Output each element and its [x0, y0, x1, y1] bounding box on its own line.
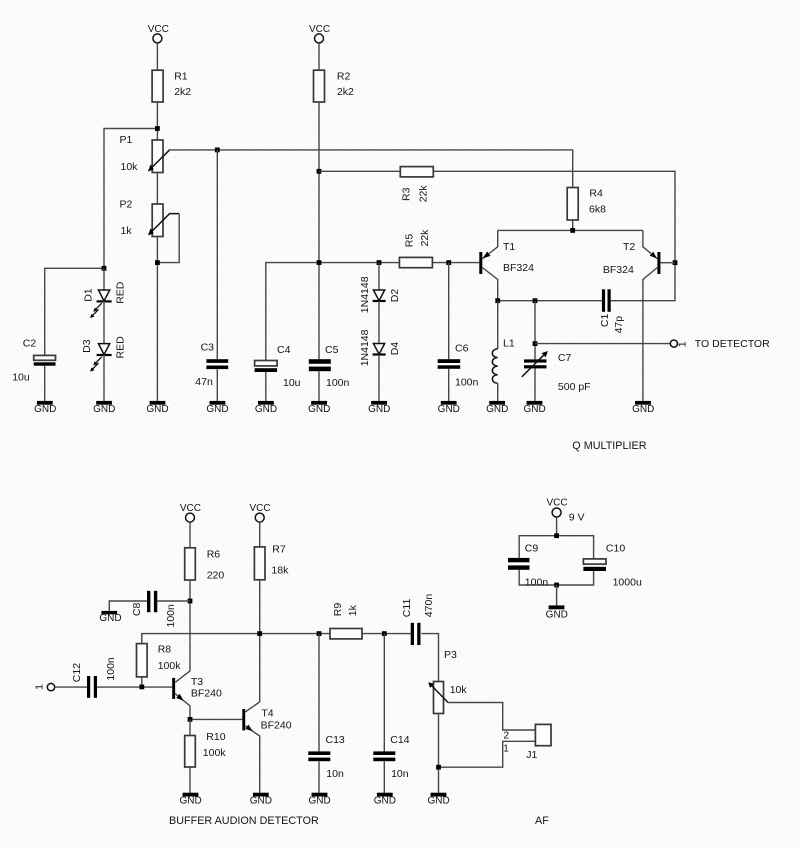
wire J1 pin1 return: [439, 741, 536, 767]
wire to ground: [556, 585, 558, 605]
junction R8/base: [139, 685, 144, 690]
wire P1 wiper rail (line A): [170, 150, 573, 188]
svg-text:D2: D2: [389, 289, 401, 303]
svg-text:100n: 100n: [525, 576, 549, 588]
svg-text:10u: 10u: [12, 371, 30, 383]
wire C13 column: [318, 634, 320, 752]
junction P3/J1 return: [436, 765, 441, 770]
junction T2 base: [673, 260, 678, 265]
svg-text:TO DETECTOR: TO DETECTOR: [695, 338, 770, 350]
svg-text:VCC: VCC: [546, 498, 567, 509]
ground (C6): [438, 401, 460, 415]
svg-text:47n: 47n: [195, 376, 213, 388]
junction P2 node: [155, 260, 160, 265]
junction filter ground node: [554, 583, 559, 588]
wire VCC to R2: [318, 43, 320, 71]
ground (filter): [546, 605, 568, 620]
ground (D3): [93, 401, 115, 415]
input terminal 1: [34, 683, 55, 690]
capacitor C5: [309, 344, 350, 389]
junction VCC rail: [554, 533, 559, 538]
ground (L1): [486, 401, 508, 415]
svg-text:C5: C5: [325, 344, 339, 356]
svg-text:C3: C3: [201, 342, 215, 354]
svg-text:GND: GND: [438, 404, 460, 415]
svg-text:Q MULTIPLIER: Q MULTIPLIER: [572, 440, 646, 452]
svg-text:22k: 22k: [417, 185, 429, 203]
svg-text:GND: GND: [99, 613, 121, 624]
resistor R10: [185, 731, 227, 767]
svg-text:R4: R4: [589, 187, 603, 199]
junction C5 tap: [317, 260, 322, 265]
junction C8 node: [188, 599, 193, 604]
diode D4: [359, 329, 401, 366]
junction C14 tap: [382, 631, 387, 636]
svg-text:R3: R3: [401, 187, 413, 201]
transistor T2: [603, 230, 675, 401]
ground (C5): [308, 401, 330, 415]
svg-text:100k: 100k: [203, 747, 227, 759]
wire audio line right: [422, 634, 439, 682]
wire C3 to ground: [216, 369, 218, 401]
svg-text:GND: GND: [632, 404, 654, 415]
svg-text:R8: R8: [158, 644, 172, 656]
svg-text:R5: R5: [403, 234, 415, 248]
svg-text:GND: GND: [308, 796, 330, 807]
junction C6/T1 base: [446, 260, 451, 265]
wire C1 line (collectors): [498, 300, 602, 302]
svg-text:10k: 10k: [450, 684, 468, 696]
svg-text:C9: C9: [525, 543, 539, 555]
resistor R8: [137, 644, 182, 677]
diode D2: [359, 276, 401, 313]
ground (C4): [255, 401, 277, 415]
svg-text:GND: GND: [179, 796, 201, 807]
svg-text:C12: C12: [71, 663, 83, 682]
svg-text:D4: D4: [389, 342, 401, 356]
resistor R2: [314, 70, 354, 102]
capacitor C8: [109, 591, 190, 628]
LED D3: [81, 336, 126, 372]
svg-text:2k2: 2k2: [337, 86, 354, 98]
svg-text:RED: RED: [114, 336, 126, 359]
power symbol VCC (R2): [309, 24, 330, 43]
wire D1 to D3: [103, 301, 105, 344]
wire VCC to rail: [556, 517, 558, 536]
potentiometer P2: [120, 199, 180, 237]
junction R2/R3 (line B start): [317, 169, 322, 174]
svg-text:BF240: BF240: [261, 720, 292, 732]
wire emitter rail T1-T2: [498, 229, 643, 231]
wire D2 to D4: [378, 301, 380, 344]
resistor R9: [330, 603, 362, 639]
wire C5 to ground: [318, 371, 320, 401]
ground (D4): [368, 401, 390, 415]
svg-text:47p: 47p: [613, 316, 625, 334]
svg-text:C2: C2: [23, 337, 37, 349]
connector J1: [503, 724, 551, 761]
wire R10 to ground: [189, 767, 191, 793]
svg-text:2: 2: [504, 731, 510, 742]
capacitor C4: [255, 344, 301, 389]
svg-text:R7: R7: [272, 543, 286, 555]
resistor R3: [400, 167, 433, 203]
svg-text:C11: C11: [401, 599, 413, 618]
svg-text:GND: GND: [146, 404, 168, 415]
wire P2 wiper to node: [157, 214, 179, 263]
transistor T3: [172, 676, 222, 720]
wire audio line: [142, 634, 411, 644]
capacitor C9: [508, 543, 548, 589]
ground (C3): [206, 401, 228, 415]
svg-text:100n: 100n: [326, 377, 350, 389]
transistor T1: [479, 230, 534, 300]
svg-text:BF240: BF240: [191, 687, 222, 699]
svg-text:GND: GND: [255, 404, 277, 415]
ground (T2 collector): [632, 401, 654, 415]
resistor R4: [567, 187, 606, 220]
svg-text:C10: C10: [606, 543, 625, 555]
ground (R10): [179, 793, 201, 807]
ground (C7): [523, 401, 545, 415]
wire T3 emitter to T4 base: [190, 718, 242, 720]
wire R8 to base line: [141, 677, 143, 687]
ground (T4): [250, 793, 272, 807]
junction D1/C2: [102, 266, 107, 271]
svg-text:L1: L1: [503, 338, 515, 350]
junction R7 line: [257, 631, 262, 636]
svg-text:T4: T4: [261, 707, 273, 719]
svg-text:C13: C13: [326, 734, 345, 746]
capacitor C13: [308, 734, 345, 780]
svg-text:C7: C7: [558, 352, 572, 364]
svg-text:R10: R10: [206, 731, 225, 743]
wire C2 link: [45, 268, 104, 355]
svg-text:P3: P3: [444, 649, 457, 661]
resistor R5: [399, 229, 432, 268]
wire C3 column: [216, 150, 218, 359]
wire line B to T2 base: [319, 171, 675, 300]
svg-text:220: 220: [207, 569, 225, 581]
junction node R1/P1: [155, 126, 160, 131]
svg-text:1N4148: 1N4148: [359, 329, 371, 366]
ground (P2 column): [146, 401, 168, 415]
capacitor C2: [12, 337, 55, 383]
LED D1: [83, 281, 127, 318]
svg-text:10k: 10k: [121, 161, 139, 173]
junction C13 tap: [317, 631, 322, 636]
wire D3 to ground: [103, 355, 105, 401]
wire D4 to ground: [378, 355, 380, 401]
ground (P3): [427, 793, 449, 807]
svg-text:R6: R6: [207, 548, 221, 560]
power symbol VCC (R1): [148, 24, 169, 43]
svg-text:BF324: BF324: [603, 264, 634, 276]
ground (C2): [34, 401, 56, 415]
resistor R6: [185, 548, 225, 582]
wire to LED D1: [103, 268, 105, 290]
wire R10 leads: [189, 719, 191, 735]
junction C3 tap: [215, 148, 220, 153]
capacitor C12: [71, 657, 117, 698]
svg-text:100n: 100n: [105, 657, 117, 681]
svg-text:1: 1: [34, 684, 46, 690]
svg-text:C8: C8: [131, 603, 143, 617]
svg-text:RED: RED: [114, 281, 126, 304]
svg-text:R2: R2: [337, 71, 351, 83]
wire P2 to ground: [156, 237, 158, 401]
svg-text:R9: R9: [332, 603, 344, 617]
svg-text:R1: R1: [174, 71, 188, 83]
wire C14 column: [383, 634, 385, 752]
svg-text:P1: P1: [120, 134, 133, 146]
svg-text:1k: 1k: [347, 604, 359, 616]
ground (C8): [99, 611, 121, 624]
wire filter rails: [519, 536, 593, 559]
wire VCC to R7: [259, 522, 261, 547]
potentiometer P3: [428, 649, 467, 714]
svg-text:T2: T2: [623, 241, 635, 253]
wire VCC to R6: [189, 522, 191, 548]
wire C14 to ground: [383, 761, 385, 793]
svg-text:1N4148: 1N4148: [359, 276, 371, 313]
power symbol VCC (R6): [180, 503, 201, 522]
svg-text:GND: GND: [523, 404, 545, 415]
svg-text:500 pF: 500 pF: [558, 381, 591, 393]
svg-text:1: 1: [677, 341, 689, 347]
wire input to C12: [55, 686, 87, 688]
potentiometer P1: [120, 134, 170, 173]
svg-text:D1: D1: [83, 288, 95, 302]
wire to detector terminal: [535, 343, 670, 345]
wire R6 to T3 collector: [175, 580, 190, 682]
variable capacitor C7: [522, 351, 591, 393]
capacitor C6: [438, 343, 479, 389]
svg-text:1000u: 1000u: [613, 576, 642, 588]
svg-text:9 V: 9 V: [569, 511, 585, 523]
svg-text:GND: GND: [250, 796, 272, 807]
wire filter bottom rail: [519, 570, 593, 585]
junction T1 collector: [495, 298, 500, 303]
svg-text:C6: C6: [455, 343, 469, 355]
wire C7 to ground: [534, 368, 536, 401]
wire base line R5 (T1): [266, 263, 480, 361]
output terminal TO DETECTOR: [670, 338, 770, 350]
capacitor C1: [599, 289, 625, 333]
wire P3 to ground: [438, 714, 440, 793]
wire R2 column down to C5: [318, 102, 320, 359]
svg-text:D3: D3: [81, 339, 93, 353]
svg-text:6k8: 6k8: [589, 203, 606, 215]
svg-text:GND: GND: [368, 404, 390, 415]
capacitor C14: [373, 734, 409, 780]
svg-text:J1: J1: [526, 749, 537, 761]
power symbol VCC 9V: [546, 498, 584, 524]
svg-text:10u: 10u: [283, 377, 301, 389]
svg-text:GND: GND: [206, 404, 228, 415]
wire C2 to ground: [44, 366, 46, 401]
svg-text:C4: C4: [277, 344, 291, 356]
resistor R1: [152, 70, 191, 102]
wire C13 to ground: [318, 761, 320, 793]
power symbol VCC (R7): [249, 503, 270, 522]
svg-text:1: 1: [503, 744, 509, 755]
capacitor C11: [401, 594, 435, 645]
wire R7 to T4 collector: [245, 580, 260, 712]
wire R4 to emitter rail: [572, 220, 574, 230]
transistor T4: [242, 707, 291, 792]
wire C6 to ground: [448, 369, 450, 401]
svg-text:VCC: VCC: [180, 503, 201, 514]
svg-text:C1: C1: [599, 314, 611, 328]
svg-text:18k: 18k: [271, 564, 289, 576]
ground (C13): [308, 793, 330, 807]
wire VCC to R1: [156, 43, 158, 71]
junction R4/rail: [570, 228, 575, 233]
svg-text:BF324: BF324: [503, 262, 534, 274]
svg-text:100n: 100n: [455, 376, 479, 388]
wire to diode D2: [378, 263, 380, 290]
svg-text:GND: GND: [546, 609, 568, 620]
wire P1 to P2: [156, 173, 158, 205]
svg-text:100n: 100n: [165, 604, 177, 628]
svg-text:GND: GND: [308, 404, 330, 415]
junction T3 emitter/R10: [188, 717, 193, 722]
junction C7 tap: [533, 298, 538, 303]
wire P3 wiper to J1 pin2: [448, 703, 535, 731]
inductor L1: [492, 301, 515, 401]
svg-text:10n: 10n: [391, 768, 409, 780]
wire node to D1 branch: [104, 129, 157, 269]
capacitor C3: [195, 342, 228, 388]
svg-text:P2: P2: [120, 199, 133, 211]
svg-text:GND: GND: [374, 796, 396, 807]
junction detector tap: [533, 341, 538, 346]
svg-text:BUFFER AUDION DETECTOR: BUFFER AUDION DETECTOR: [169, 815, 319, 827]
capacitor C10: [583, 543, 642, 589]
svg-text:VCC: VCC: [249, 503, 270, 514]
wire R1 to node: [156, 102, 158, 140]
junction D2 tap: [377, 260, 382, 265]
svg-text:AF: AF: [535, 815, 549, 827]
svg-text:GND: GND: [34, 404, 56, 415]
svg-text:22k: 22k: [419, 229, 431, 247]
svg-text:1k: 1k: [121, 225, 133, 237]
svg-text:2k2: 2k2: [174, 86, 191, 98]
wire C6 column: [448, 263, 450, 360]
svg-text:GND: GND: [93, 404, 115, 415]
resistor R7: [254, 543, 289, 580]
svg-text:GND: GND: [486, 404, 508, 415]
wire C12 to T3 base: [97, 686, 172, 688]
svg-text:T1: T1: [503, 241, 515, 253]
ground (C14): [374, 793, 396, 807]
wire C7 column: [534, 301, 536, 360]
svg-text:100k: 100k: [158, 660, 182, 672]
svg-text:10n: 10n: [326, 768, 344, 780]
svg-text:C14: C14: [390, 734, 409, 746]
svg-text:GND: GND: [427, 796, 449, 807]
svg-text:470n: 470n: [423, 594, 435, 618]
wire C4 to ground: [265, 372, 267, 401]
svg-text:T3: T3: [191, 676, 203, 688]
